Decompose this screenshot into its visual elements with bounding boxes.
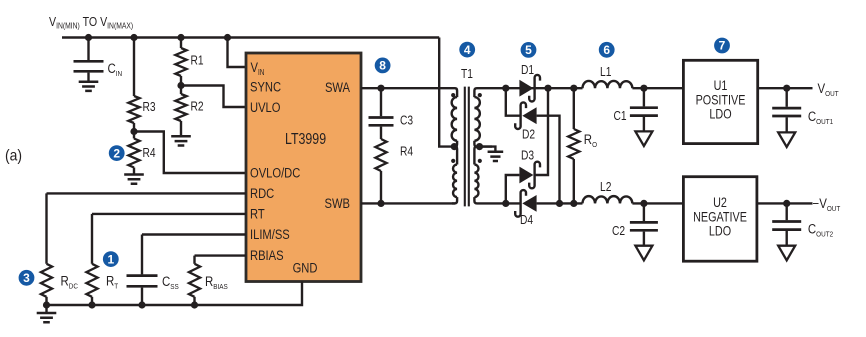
badge 1 <box>103 251 119 267</box>
label R3 <box>143 101 156 114</box>
op-amp U2 negative LDO box <box>683 177 757 262</box>
svg-text:6: 6 <box>603 43 610 57</box>
ground C2 <box>635 246 652 261</box>
capacitor CSS <box>127 235 158 306</box>
wire RBIAS pin to RBIAS resistor <box>195 254 247 256</box>
svg-text:SWB: SWB <box>325 196 350 211</box>
svg-text:L2: L2 <box>600 181 611 194</box>
net rectifier negative rail <box>506 202 583 204</box>
svg-text:5: 5 <box>525 43 532 57</box>
resistor R3 <box>128 38 139 132</box>
label RO <box>584 132 598 149</box>
label RBIAS <box>205 274 228 291</box>
node VOUT / COUT1 <box>783 85 790 92</box>
label CSS <box>162 274 179 291</box>
ground R2 <box>171 136 191 145</box>
phase dot secondary bottom <box>478 159 482 163</box>
svg-text:RDC: RDC <box>250 186 274 201</box>
transformer T1 primary bottom winding <box>452 147 457 204</box>
svg-text:LDO: LDO <box>709 223 731 238</box>
label VOUT <box>818 81 840 98</box>
svg-text:R3: R3 <box>143 101 156 114</box>
node gnd rail RDC <box>43 301 50 308</box>
label L2 <box>600 181 611 194</box>
pin GND label <box>293 260 318 275</box>
node -VOUT / COUT2 <box>783 200 790 207</box>
label U1 <box>696 78 746 122</box>
svg-text:C2: C2 <box>612 225 625 238</box>
svg-text:LT3999: LT3999 <box>285 130 326 148</box>
pin RBIAS label <box>250 248 284 263</box>
svg-text:R2: R2 <box>191 101 204 114</box>
transformer T1 secondary top winding <box>474 88 505 146</box>
node input rail / CIN <box>85 34 92 41</box>
wire VIN rail down to transformer center tap <box>439 38 452 147</box>
svg-text:8: 8 <box>379 59 386 73</box>
wire L1 to U1 <box>632 87 683 89</box>
svg-text:U2: U2 <box>713 195 727 210</box>
label VIN(MIN) TO VIN(MAX) <box>49 15 133 31</box>
svg-text:ILIM/SS: ILIM/SS <box>250 227 290 242</box>
op-amp U LT3999 body <box>246 53 361 282</box>
node gnd rail RT <box>88 301 95 308</box>
wire GND return rail <box>47 282 303 314</box>
badge 2 <box>109 145 125 161</box>
wire L2 to U2 <box>632 202 683 204</box>
node RO bottom <box>570 200 577 207</box>
label U2 <box>693 195 747 239</box>
label D2 <box>522 129 535 142</box>
node SWA / C3 <box>377 85 384 92</box>
label R2 <box>191 101 204 114</box>
wire RT pin to RT resistor <box>92 213 246 215</box>
svg-text:2: 2 <box>113 146 120 160</box>
resistor RT <box>86 214 97 305</box>
svg-text:SYNC: SYNC <box>250 79 281 94</box>
label RT <box>106 273 119 290</box>
badge 6 <box>599 42 615 58</box>
label T1 <box>461 68 473 81</box>
label -VOUT <box>813 196 841 213</box>
node secondary top / D2 branch <box>502 85 509 92</box>
pin RDC label <box>250 186 274 201</box>
svg-text:L1: L1 <box>600 66 611 79</box>
wire D3 cathode to positive rail <box>535 88 548 175</box>
label R1 <box>191 55 204 68</box>
resistor R1 <box>175 38 186 86</box>
label L1 <box>600 66 611 79</box>
node RO top <box>570 85 577 92</box>
node R1/R2 junction <box>177 82 184 89</box>
svg-text:T1: T1 <box>461 68 473 81</box>
ground CIN <box>79 82 99 91</box>
resistor RDC <box>41 193 52 305</box>
wire D2 anode to negative rail <box>537 116 560 204</box>
ground C1 <box>635 131 652 146</box>
capacitor C2 <box>630 203 658 245</box>
ground R4 <box>124 175 144 184</box>
svg-text:RBIAS: RBIAS <box>250 248 284 263</box>
wire RDC pin to RDC resistor <box>47 192 247 194</box>
transformer T1 secondary bottom winding <box>474 147 505 204</box>
badge 8 <box>375 58 391 74</box>
svg-text:7: 7 <box>719 39 726 53</box>
wire rail to VIN pin <box>228 38 247 68</box>
svg-text:D2: D2 <box>522 129 535 142</box>
inductor L1 <box>583 81 633 88</box>
label D1 <box>521 64 534 77</box>
node D1 cathode / D3 cathode <box>544 85 551 92</box>
diode D1 <box>519 75 540 102</box>
resistor R4 <box>128 132 139 175</box>
badge 3 <box>19 270 35 286</box>
label C3 <box>400 115 413 128</box>
node input rail / R1 <box>177 34 184 41</box>
pin SWB label <box>325 196 350 211</box>
phase dot secondary top <box>478 93 482 97</box>
svg-text:D4: D4 <box>520 214 534 227</box>
node input rail / VIN pin <box>224 34 231 41</box>
svg-text:OVLO/DC: OVLO/DC <box>250 165 300 180</box>
diode D4 <box>515 190 536 217</box>
net rectifier positive rail <box>506 87 583 89</box>
node T1 primary center tap <box>451 143 458 150</box>
wire SWB to transformer primary bottom <box>361 202 455 204</box>
badge 5 <box>521 42 537 58</box>
node gnd rail CSS <box>138 301 145 308</box>
inductor L2 <box>583 196 633 203</box>
wire SWA to transformer primary top <box>361 87 455 89</box>
svg-text:R1: R1 <box>191 55 204 68</box>
transformer T1 core <box>465 87 469 207</box>
node gnd rail RBIAS <box>191 301 198 308</box>
wire D2 cathode branch <box>506 88 521 116</box>
label C2 <box>612 225 625 238</box>
node secondary bottom / D3 branch <box>502 200 509 207</box>
node L1 / C1 <box>640 85 647 92</box>
pin RT label <box>250 206 265 221</box>
pin VIN label <box>251 60 265 77</box>
capacitor COUT2 <box>772 203 801 245</box>
label R4 snubber <box>400 146 414 159</box>
svg-text:C3: C3 <box>400 115 413 128</box>
label R4 <box>143 147 157 160</box>
node input rail / R3 <box>130 34 137 41</box>
svg-text:D1: D1 <box>521 64 534 77</box>
resistor R4 snubber <box>375 139 386 203</box>
chip name LT3999 <box>285 130 326 148</box>
op-amp U1 positive LDO box <box>683 60 757 143</box>
svg-text:4: 4 <box>464 43 471 57</box>
label COUT2 <box>808 222 833 239</box>
node T1 secondary center tap <box>476 143 483 150</box>
diode D2 <box>515 102 536 129</box>
wire ILIM/SS pin to CSS <box>142 233 246 235</box>
ground COUT2 <box>778 246 795 261</box>
svg-text:R4: R4 <box>400 146 414 159</box>
capacitor C1 <box>630 88 658 131</box>
node SWB / R4 <box>377 200 384 207</box>
wire U1 output <box>758 87 813 89</box>
svg-text:RT: RT <box>250 206 265 221</box>
resistor RO <box>568 88 579 203</box>
svg-text:U1: U1 <box>714 78 728 93</box>
capacitor COUT1 <box>772 88 801 132</box>
wire R1-R2 junction to UVLO pin <box>181 86 246 108</box>
badge 4 <box>459 42 475 58</box>
pin OVLO/DC label <box>250 165 300 180</box>
svg-text:POSITIVE: POSITIVE <box>696 92 746 107</box>
pin SWA label <box>325 80 351 95</box>
label CIN <box>108 61 123 78</box>
node D4 anode / D2 anode <box>556 200 563 207</box>
wire secondary center tap to ground <box>480 147 496 152</box>
svg-text:R4: R4 <box>143 147 157 160</box>
svg-text:1: 1 <box>107 252 114 266</box>
phase dot primary bottom <box>451 159 455 163</box>
svg-text:GND: GND <box>293 260 318 275</box>
svg-text:UVLO: UVLO <box>250 100 281 115</box>
label D3 <box>521 150 534 163</box>
net VIN input rail <box>62 36 439 38</box>
svg-text:NEGATIVE: NEGATIVE <box>693 209 747 224</box>
diode D3 <box>519 162 540 189</box>
svg-text:C1: C1 <box>614 110 627 123</box>
pin ILIM/SS label <box>250 227 290 242</box>
capacitor CIN <box>74 38 104 81</box>
wire U2 output <box>757 202 813 204</box>
badge 7 <box>714 38 730 54</box>
pin UVLO label <box>250 100 281 115</box>
resistor RBIAS <box>189 256 200 305</box>
ground T1 center tap <box>488 152 504 161</box>
label C1 <box>614 110 627 123</box>
wire R3-R4 junction to OVLO/DC pin <box>134 132 246 174</box>
transformer T1 primary top winding <box>452 88 457 146</box>
label COUT1 <box>808 109 833 126</box>
svg-text:(a): (a) <box>5 148 22 165</box>
node R3/R4 junction <box>130 128 137 135</box>
svg-text:3: 3 <box>23 271 30 285</box>
svg-text:SWA: SWA <box>325 80 351 95</box>
svg-text:D3: D3 <box>521 150 534 163</box>
node L2 / C2 <box>640 200 647 207</box>
ground COUT1 <box>778 132 795 147</box>
phase dot primary top <box>451 93 455 97</box>
label RDC <box>61 273 78 290</box>
svg-text:LDO: LDO <box>709 106 731 121</box>
ground main <box>37 313 57 322</box>
resistor R2 <box>175 86 186 136</box>
label (a) <box>5 148 22 165</box>
wire D3 anode branch <box>506 175 520 203</box>
pin SYNC label <box>250 79 281 94</box>
label D4 <box>520 214 534 227</box>
capacitor C3 <box>369 88 394 139</box>
